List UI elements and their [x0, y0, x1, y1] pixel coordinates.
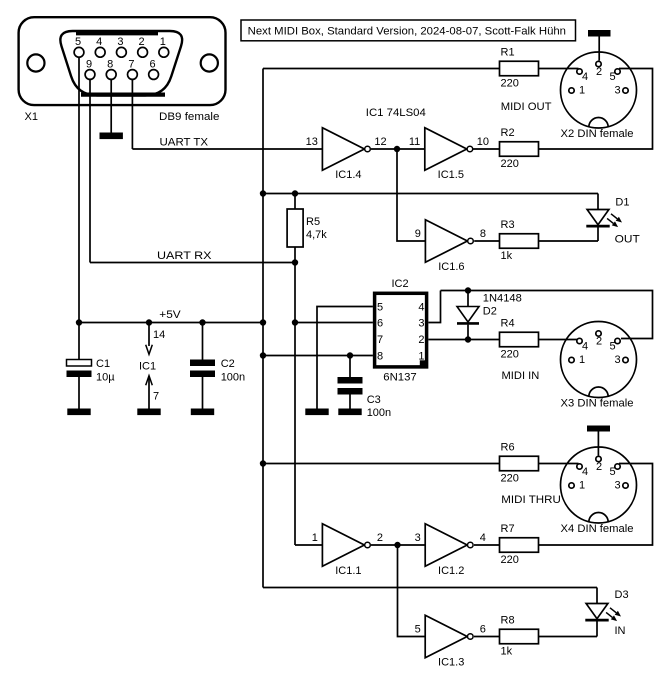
- svg-text:8: 8: [107, 59, 113, 71]
- svg-text:D1: D1: [615, 197, 629, 209]
- svg-text:+5V: +5V: [159, 309, 181, 321]
- svg-text:6N137: 6N137: [383, 372, 416, 384]
- svg-text:5: 5: [75, 36, 81, 48]
- svg-text:220: 220: [501, 78, 519, 90]
- svg-text:Next MIDI Box, Standard Versio: Next MIDI Box, Standard Version, 2024-08…: [248, 26, 566, 38]
- svg-text:220: 220: [501, 554, 519, 566]
- svg-text:2: 2: [596, 66, 602, 78]
- svg-text:220: 220: [501, 158, 519, 170]
- svg-text:100n: 100n: [367, 407, 391, 419]
- svg-text:5: 5: [609, 466, 615, 478]
- svg-text:D3: D3: [615, 589, 629, 601]
- svg-text:10: 10: [477, 136, 489, 148]
- svg-text:MIDI IN: MIDI IN: [502, 370, 540, 382]
- svg-text:7: 7: [377, 334, 383, 346]
- svg-text:2: 2: [377, 532, 383, 544]
- svg-text:1: 1: [418, 351, 424, 363]
- svg-text:DB9 female: DB9 female: [159, 111, 219, 123]
- svg-text:2: 2: [596, 336, 602, 348]
- svg-text:X1: X1: [25, 111, 38, 123]
- svg-text:4: 4: [96, 36, 102, 48]
- svg-text:UART TX: UART TX: [160, 137, 209, 149]
- svg-text:IC1.6: IC1.6: [438, 261, 464, 273]
- svg-text:5: 5: [609, 71, 615, 83]
- svg-text:9: 9: [415, 228, 421, 240]
- svg-text:IC1.5: IC1.5: [438, 169, 464, 181]
- svg-text:3: 3: [418, 318, 424, 330]
- svg-text:1: 1: [579, 85, 585, 97]
- svg-text:8: 8: [377, 351, 383, 363]
- svg-text:R7: R7: [501, 523, 515, 535]
- svg-text:D2: D2: [483, 306, 497, 318]
- svg-text:IC1.1: IC1.1: [335, 565, 361, 577]
- svg-text:13: 13: [306, 136, 318, 148]
- svg-text:100n: 100n: [221, 372, 245, 384]
- svg-text:IC1.3: IC1.3: [438, 657, 464, 669]
- svg-text:6: 6: [150, 59, 156, 71]
- svg-text:3: 3: [415, 532, 421, 544]
- svg-text:MIDI THRU: MIDI THRU: [501, 494, 561, 506]
- svg-text:4: 4: [480, 532, 486, 544]
- svg-text:1: 1: [312, 532, 318, 544]
- svg-text:6: 6: [480, 624, 486, 636]
- svg-text:1: 1: [160, 36, 166, 48]
- svg-text:R8: R8: [501, 615, 515, 627]
- svg-text:10µ: 10µ: [96, 372, 115, 384]
- svg-text:IN: IN: [615, 625, 626, 637]
- svg-text:1k: 1k: [501, 646, 513, 658]
- svg-text:4,7k: 4,7k: [306, 229, 327, 241]
- svg-text:5: 5: [377, 301, 383, 313]
- svg-text:IC1.4: IC1.4: [335, 169, 361, 181]
- svg-text:4: 4: [582, 466, 588, 478]
- svg-text:5: 5: [415, 624, 421, 636]
- svg-text:7: 7: [153, 391, 159, 403]
- svg-text:3: 3: [117, 36, 123, 48]
- svg-text:IC1: IC1: [139, 361, 156, 373]
- svg-text:4: 4: [582, 341, 588, 353]
- svg-text:12: 12: [374, 136, 386, 148]
- svg-text:X3 DIN female: X3 DIN female: [561, 398, 634, 410]
- svg-text:2: 2: [139, 36, 145, 48]
- svg-text:5: 5: [609, 341, 615, 353]
- svg-text:UART RX: UART RX: [157, 250, 212, 262]
- svg-text:IC1 74LS04: IC1 74LS04: [366, 107, 426, 119]
- svg-text:IC2: IC2: [391, 278, 408, 290]
- svg-text:R3: R3: [501, 219, 515, 231]
- svg-text:220: 220: [501, 473, 519, 485]
- svg-text:X2 DIN female: X2 DIN female: [561, 128, 634, 140]
- svg-text:2: 2: [418, 334, 424, 346]
- svg-text:R5: R5: [306, 216, 320, 228]
- svg-text:8: 8: [480, 228, 486, 240]
- svg-text:14: 14: [153, 329, 165, 341]
- svg-text:X4 DIN female: X4 DIN female: [561, 523, 634, 535]
- svg-text:3: 3: [614, 85, 620, 97]
- svg-text:2: 2: [596, 461, 602, 473]
- svg-text:R4: R4: [501, 318, 515, 330]
- svg-text:C3: C3: [367, 394, 381, 406]
- svg-text:1N4148: 1N4148: [483, 293, 522, 305]
- svg-text:9: 9: [86, 59, 92, 71]
- svg-text:1k: 1k: [501, 250, 513, 262]
- svg-text:4: 4: [582, 71, 588, 83]
- svg-text:1: 1: [579, 480, 585, 492]
- svg-text:R1: R1: [501, 47, 515, 59]
- svg-text:1: 1: [579, 354, 585, 366]
- svg-text:IC1.2: IC1.2: [438, 565, 464, 577]
- svg-text:OUT: OUT: [615, 234, 640, 246]
- svg-text:7: 7: [128, 59, 134, 71]
- svg-text:R6: R6: [501, 442, 515, 454]
- svg-text:4: 4: [418, 301, 424, 313]
- svg-text:MIDI OUT: MIDI OUT: [501, 101, 552, 113]
- svg-text:3: 3: [614, 480, 620, 492]
- svg-text:R2: R2: [501, 127, 515, 139]
- svg-text:6: 6: [377, 318, 383, 330]
- svg-text:C2: C2: [221, 358, 235, 370]
- svg-text:11: 11: [409, 136, 420, 148]
- svg-text:220: 220: [501, 349, 519, 361]
- svg-text:C1: C1: [96, 358, 110, 370]
- svg-text:3: 3: [614, 354, 620, 366]
